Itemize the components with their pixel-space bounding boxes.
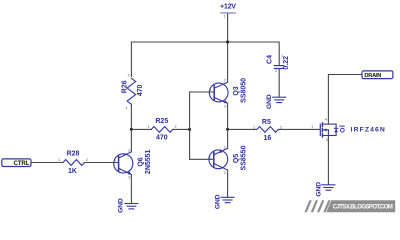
wire Q3 emitter down [227, 103, 229, 129]
svg-text:R25: R25 [155, 118, 168, 125]
port CTRL [2, 159, 31, 167]
svg-text:3: 3 [128, 176, 130, 180]
svg-text:1: 1 [209, 155, 211, 159]
svg-text:16: 16 [264, 135, 272, 142]
power port +12V [220, 1, 236, 18]
wire node B to Q3 base [190, 91, 215, 93]
svg-text:IRFZ46N: IRFZ46N [351, 127, 386, 134]
wire R28 to Q6 base [85, 162, 119, 164]
wire drain up to DRAIN [328, 75, 362, 125]
svg-text:GND: GND [315, 182, 322, 197]
wire +12V down to rail [227, 14, 229, 42]
svg-text:2: 2 [175, 125, 177, 129]
svg-text:1: 1 [209, 88, 211, 92]
wire Q6 emitter down [130, 175, 132, 204]
svg-text:GND: GND [215, 194, 222, 209]
svg-text:R28: R28 [67, 151, 80, 158]
svg-text:1: 1 [58, 158, 60, 162]
watermark stripes [304, 200, 330, 212]
wire bases vertical [189, 92, 191, 159]
wire emitters node to R5 [228, 128, 257, 130]
ground Q6 [117, 198, 138, 213]
svg-text:1: 1 [253, 126, 255, 130]
wire R25 to node B [173, 128, 190, 130]
svg-text:1K: 1K [68, 168, 77, 175]
wire top rail [131, 42, 279, 77]
ground mosfet [315, 182, 335, 197]
svg-text:470: 470 [137, 84, 144, 96]
svg-text:1: 1 [311, 125, 313, 129]
wire R5 to gate [278, 128, 319, 130]
watermark banner CJTSX.BLOGSPOT.COM [326, 200, 395, 212]
svg-text:1: 1 [281, 54, 283, 58]
svg-text:470: 470 [156, 135, 168, 142]
node B junction [188, 128, 191, 131]
wire Q3 collector up [227, 42, 229, 82]
svg-text:SS8050: SS8050 [241, 78, 248, 103]
svg-text:2: 2 [275, 69, 277, 73]
junction rail/+12V [226, 41, 229, 44]
ground Q5 [215, 194, 235, 209]
svg-text:DRAIN: DRAIN [364, 73, 381, 79]
svg-text:2: 2 [86, 158, 88, 162]
resistor R5 [253, 119, 282, 142]
svg-text:1: 1 [224, 15, 226, 19]
capacitor C4 [266, 54, 289, 73]
wire Q5 collector down [227, 170, 229, 197]
mosfet U IRFZ46N [311, 117, 386, 141]
svg-text:1: 1 [147, 125, 149, 129]
transistor Q3 (NPN SS8050) [209, 78, 247, 109]
svg-text:Q3: Q3 [233, 86, 240, 95]
svg-text:C4: C4 [266, 55, 273, 64]
svg-text:0.22: 0.22 [283, 56, 290, 70]
svg-text:3: 3 [224, 105, 226, 109]
svg-text:1: 1 [126, 106, 128, 110]
wire C4 bottom to ground [278, 69, 280, 97]
svg-text:Q6: Q6 [137, 157, 144, 166]
wire node B to Q5 base [190, 158, 214, 160]
wire source down to ground [327, 136, 329, 185]
svg-text:1: 1 [114, 159, 116, 163]
svg-text:R26: R26 [121, 80, 128, 93]
wire node A to R25 [131, 128, 151, 130]
ground C4 [266, 94, 286, 109]
svg-text:SS8550: SS8550 [241, 145, 248, 170]
svg-text:2: 2 [224, 145, 226, 149]
node A junction [130, 128, 133, 131]
wire CTRL to R28 [31, 162, 63, 164]
port DRAIN [362, 71, 393, 79]
transistor Q5 (PNP SS8550) [209, 145, 248, 175]
wire Q6 collector to node A [130, 129, 132, 151]
svg-text:CJTSX.BLOGSPOT.COM: CJTSX.BLOGSPOT.COM [333, 205, 393, 211]
svg-text:CTRL: CTRL [13, 160, 29, 167]
svg-text:R5: R5 [262, 119, 271, 126]
svg-text:GND: GND [117, 198, 124, 213]
resistor R28 [58, 151, 88, 175]
svg-text:3: 3 [326, 138, 328, 142]
transistor Q6 (NPN 2N5551) [114, 148, 152, 179]
svg-text:2: 2 [128, 74, 130, 78]
svg-text:3: 3 [224, 171, 226, 175]
wire R26 bottom to node A [130, 104, 132, 129]
wire emitters node to Q5 emitter [227, 129, 229, 148]
svg-text:2N5551: 2N5551 [145, 149, 152, 174]
svg-text:Q5: Q5 [233, 154, 240, 163]
resistor R25 [147, 118, 176, 141]
svg-text:2: 2 [128, 148, 130, 152]
svg-text:4: 4 [325, 117, 327, 121]
svg-text:+12V: +12V [220, 1, 236, 10]
resistor R26 [121, 74, 144, 111]
junction emitters node [226, 128, 229, 131]
svg-text:2: 2 [224, 79, 226, 83]
svg-text:GND: GND [266, 94, 273, 109]
